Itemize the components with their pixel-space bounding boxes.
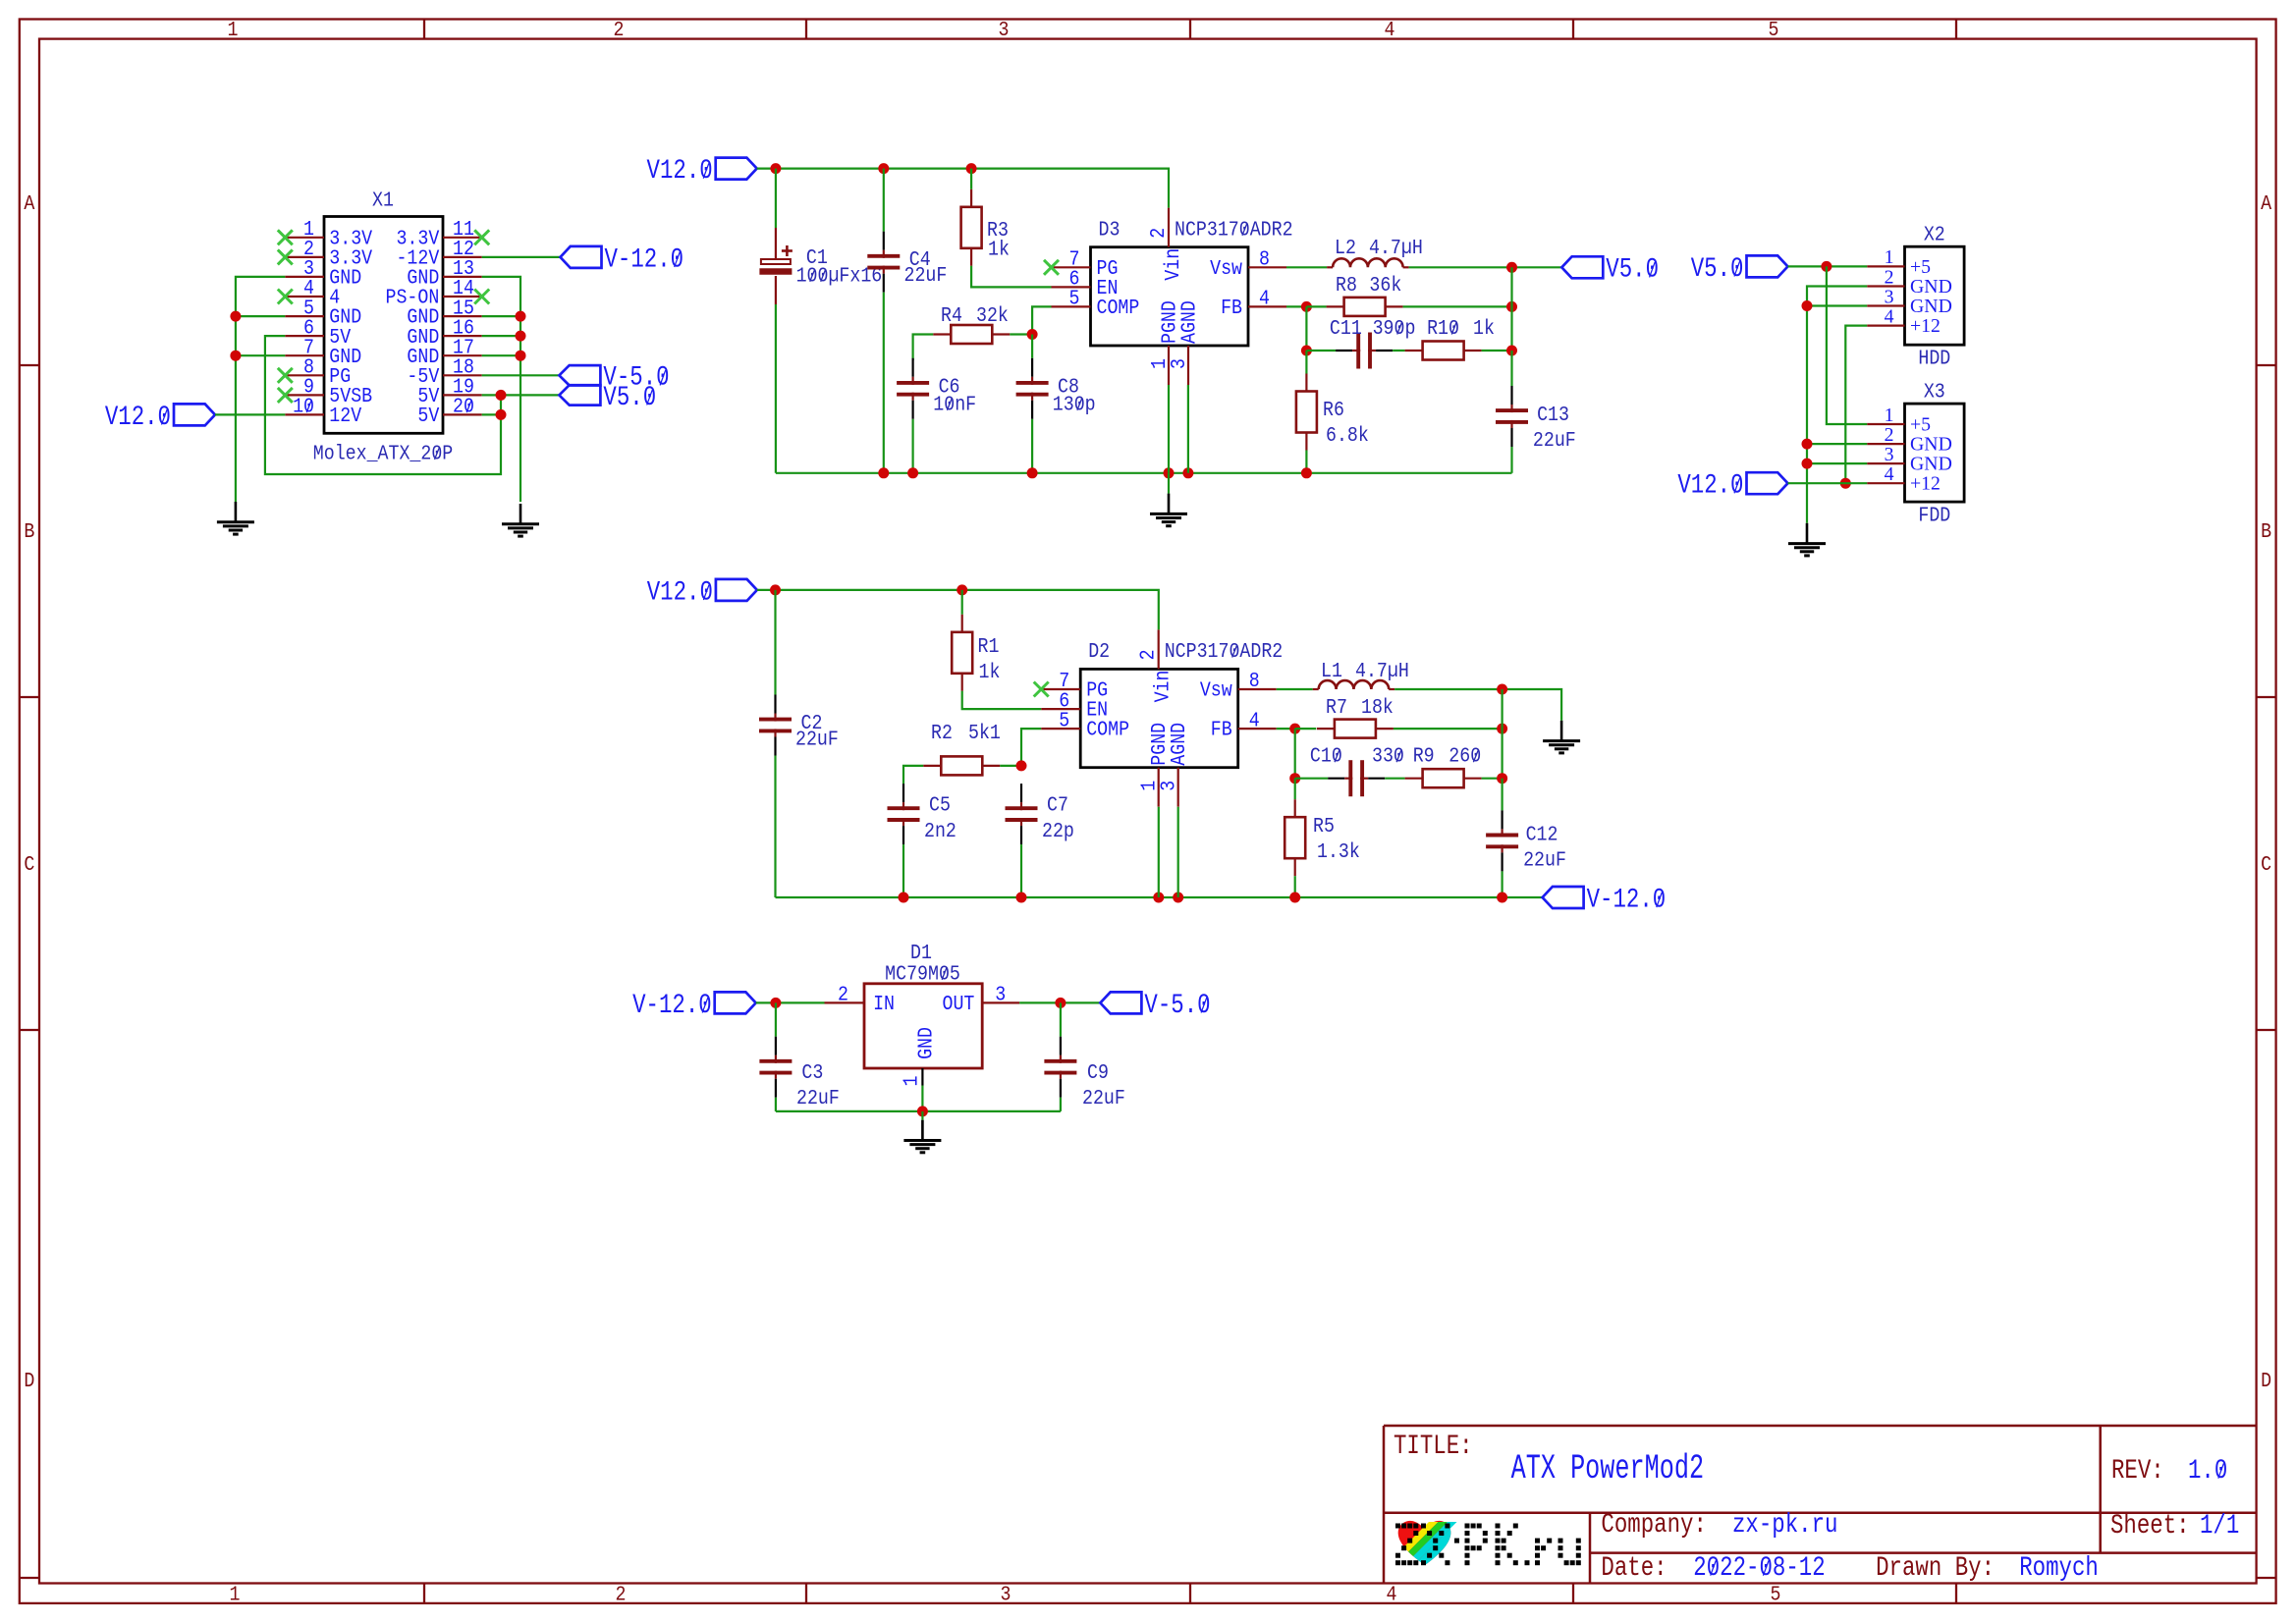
svg-text:22uF: 22uF: [1533, 428, 1576, 453]
svg-text:1k: 1k: [1473, 316, 1495, 341]
svg-text:22uF: 22uF: [1523, 847, 1566, 872]
svg-text:GND: GND: [1910, 276, 1952, 298]
svg-text:1: 1: [1885, 246, 1894, 268]
svg-text:1: 1: [230, 1582, 241, 1606]
svg-text:+5: +5: [1910, 413, 1931, 435]
svg-text:L1: L1: [1321, 659, 1342, 683]
svg-text:10nF: 10nF: [933, 392, 976, 416]
svg-text:R5: R5: [1313, 814, 1335, 839]
svg-text:32k: 32k: [976, 303, 1009, 328]
svg-text:R6: R6: [1323, 398, 1344, 422]
svg-text:FB: FB: [1221, 296, 1242, 320]
svg-text:C7: C7: [1047, 792, 1068, 817]
svg-text:Company:: Company:: [1601, 1509, 1706, 1541]
svg-text:B: B: [2261, 518, 2271, 543]
svg-text:2n2: 2n2: [924, 819, 957, 843]
svg-text:1: 1: [228, 18, 239, 42]
svg-text:C11: C11: [1330, 316, 1362, 341]
svg-text:B: B: [24, 518, 34, 543]
svg-text:GND: GND: [1910, 454, 1952, 475]
svg-text:Vsw: Vsw: [1210, 256, 1242, 281]
svg-text:D3: D3: [1099, 217, 1121, 242]
svg-text:22uF: 22uF: [795, 727, 839, 751]
svg-text:FB: FB: [1211, 717, 1232, 741]
svg-text:1: 1: [1885, 405, 1894, 426]
svg-text:V5.0: V5.0: [603, 382, 656, 413]
svg-text:3: 3: [1885, 444, 1894, 465]
svg-text:2: 2: [1885, 424, 1894, 446]
svg-text:V-12.0: V-12.0: [605, 243, 684, 275]
svg-text:3: 3: [1156, 781, 1180, 791]
svg-text:1.3k: 1.3k: [1317, 839, 1360, 864]
svg-text:3: 3: [1167, 358, 1191, 369]
svg-text:Vin: Vin: [1150, 671, 1175, 703]
svg-text:390p: 390p: [1373, 316, 1416, 341]
svg-text:5: 5: [1059, 708, 1069, 732]
svg-text:2: 2: [616, 1582, 627, 1606]
svg-text:5: 5: [1769, 18, 1779, 42]
svg-text:X2: X2: [1924, 222, 1945, 246]
svg-text:4.7µH: 4.7µH: [1355, 659, 1409, 683]
svg-text:GND: GND: [913, 1027, 938, 1059]
svg-text:2: 2: [1146, 228, 1171, 239]
svg-text:V12.0: V12.0: [1677, 469, 1743, 501]
svg-text:V5.0: V5.0: [1691, 253, 1744, 285]
svg-text:V-12.0: V-12.0: [1587, 884, 1667, 915]
svg-text:IN: IN: [873, 992, 895, 1016]
svg-text:1: 1: [899, 1076, 923, 1087]
svg-text:C3: C3: [801, 1060, 823, 1085]
svg-text:zx-pk.ru: zx-pk.ru: [1732, 1509, 1837, 1541]
svg-text:HDD: HDD: [1918, 346, 1950, 370]
svg-text:C13: C13: [1537, 403, 1569, 427]
svg-text:C12: C12: [1526, 822, 1558, 846]
svg-text:4: 4: [1259, 286, 1270, 310]
svg-text:36k: 36k: [1369, 273, 1401, 298]
svg-text:18k: 18k: [1361, 695, 1394, 720]
svg-text:+12: +12: [1910, 315, 1941, 337]
svg-text:AGND: AGND: [1176, 300, 1201, 344]
svg-text:4: 4: [1249, 708, 1260, 732]
svg-text:Sheet:: Sheet:: [2110, 1510, 2190, 1542]
svg-text:1k: 1k: [988, 237, 1010, 261]
svg-text:V12.0: V12.0: [105, 402, 171, 433]
svg-text:8: 8: [1249, 669, 1260, 693]
svg-text:3: 3: [1001, 1582, 1011, 1606]
svg-text:L2: L2: [1335, 236, 1356, 260]
svg-text:5k1: 5k1: [968, 721, 1001, 745]
svg-text:C5: C5: [929, 792, 951, 817]
svg-text:2: 2: [1885, 266, 1894, 288]
svg-text:Romych: Romych: [2019, 1552, 2099, 1584]
svg-text:R9: R9: [1413, 743, 1435, 768]
svg-text:A: A: [24, 190, 34, 215]
svg-text:5: 5: [1771, 1582, 1781, 1606]
svg-text:COMP: COMP: [1097, 296, 1140, 320]
svg-text:130p: 130p: [1053, 392, 1096, 416]
svg-text:C: C: [24, 851, 34, 876]
svg-text:Vsw: Vsw: [1200, 677, 1232, 702]
svg-text:GND: GND: [1910, 296, 1952, 317]
svg-text:5V: 5V: [417, 404, 439, 428]
svg-text:Date:: Date:: [1601, 1552, 1667, 1584]
svg-text:REV:: REV:: [2111, 1455, 2164, 1487]
svg-text:+12: +12: [1910, 473, 1941, 495]
svg-text:2: 2: [1135, 649, 1160, 660]
svg-text:22uF: 22uF: [904, 263, 948, 288]
svg-text:R8: R8: [1336, 273, 1357, 298]
svg-text:D2: D2: [1088, 639, 1110, 664]
svg-text:20: 20: [453, 394, 474, 418]
svg-text:R2: R2: [931, 721, 953, 745]
svg-text:8: 8: [1259, 246, 1270, 271]
svg-text:V5.0: V5.0: [1606, 254, 1659, 286]
svg-text:ATX PowerMod2: ATX PowerMod2: [1511, 1450, 1705, 1488]
svg-text:+5: +5: [1910, 256, 1931, 278]
svg-text:A: A: [2261, 190, 2271, 215]
svg-text:C9: C9: [1087, 1060, 1109, 1085]
svg-text:22p: 22p: [1042, 819, 1074, 843]
svg-text:D: D: [24, 1368, 34, 1392]
svg-text:2: 2: [614, 18, 625, 42]
svg-text:V12.0: V12.0: [647, 576, 713, 608]
svg-text:22uF: 22uF: [796, 1086, 840, 1110]
svg-text:V-12.0: V-12.0: [632, 990, 712, 1021]
svg-text:3: 3: [1885, 286, 1894, 307]
svg-text:22uF: 22uF: [1082, 1086, 1125, 1110]
svg-text:X3: X3: [1924, 379, 1945, 404]
svg-text:TITLE:: TITLE:: [1394, 1431, 1473, 1462]
svg-text:4: 4: [1885, 305, 1894, 327]
svg-text:5: 5: [1069, 286, 1080, 310]
svg-text:GND: GND: [1910, 434, 1952, 456]
svg-text:R4: R4: [941, 303, 962, 328]
svg-text:3: 3: [999, 18, 1010, 42]
svg-text:V-5.0: V-5.0: [1144, 990, 1210, 1021]
svg-text:1/1: 1/1: [2200, 1510, 2239, 1542]
svg-text:C: C: [2261, 851, 2271, 876]
svg-text:COMP: COMP: [1086, 717, 1129, 741]
svg-text:6.8k: 6.8k: [1326, 423, 1369, 448]
svg-text:4.7µH: 4.7µH: [1369, 236, 1423, 260]
svg-text:4: 4: [1885, 463, 1894, 485]
svg-text:R1: R1: [978, 634, 1000, 659]
svg-text:R7: R7: [1326, 695, 1347, 720]
svg-text:NCP3170ADR2: NCP3170ADR2: [1175, 217, 1293, 242]
svg-text:MC79M05: MC79M05: [885, 961, 960, 986]
svg-text:AGND: AGND: [1167, 723, 1191, 766]
svg-text:1k: 1k: [979, 660, 1001, 684]
svg-text:V12.0: V12.0: [647, 155, 713, 187]
svg-text:12V: 12V: [329, 404, 361, 428]
svg-text:Vin: Vin: [1161, 248, 1185, 281]
svg-text:10: 10: [293, 394, 314, 418]
svg-text:Molex_ATX_20P: Molex_ATX_20P: [313, 441, 453, 465]
svg-text:D: D: [2261, 1368, 2271, 1392]
svg-text:4: 4: [1387, 1582, 1397, 1606]
svg-text:OUT: OUT: [943, 992, 975, 1016]
svg-text:X1: X1: [372, 188, 394, 212]
svg-text:NCP3170ADR2: NCP3170ADR2: [1165, 639, 1284, 664]
svg-text:FDD: FDD: [1918, 503, 1950, 527]
svg-text:Drawn By:: Drawn By:: [1876, 1552, 1995, 1584]
svg-text:4: 4: [1385, 18, 1395, 42]
